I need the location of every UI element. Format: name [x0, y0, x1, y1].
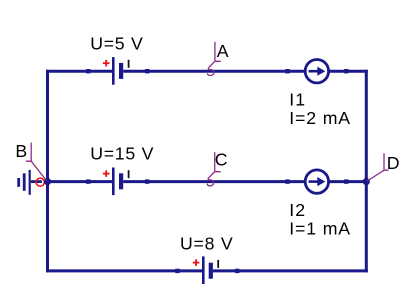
- wire: middle, right segment: [329, 180, 368, 183]
- junction node B dot: [44, 178, 51, 185]
- ground symbol: [17, 170, 31, 195]
- ground lead wire: [31, 180, 42, 183]
- current source I2 pin left: [285, 179, 289, 183]
- wire: middle, left segment: [46, 180, 112, 183]
- wire: middle, center segment: [123, 180, 305, 183]
- current source I2: [305, 170, 328, 193]
- battery V3 pin left: [175, 269, 179, 273]
- svg-text:I=2 mA: I=2 mA: [289, 108, 351, 128]
- current source I1 pin left: [285, 69, 289, 73]
- battery V2 plates (U=15 V): [112, 168, 123, 196]
- current source I2 pin right: [344, 179, 348, 183]
- battery V2 pin right: [145, 179, 149, 183]
- wire: top, middle segment: [123, 70, 305, 73]
- svg-text:D: D: [387, 153, 400, 173]
- battery V3 tick: [217, 260, 219, 268]
- battery V3 plus sign: [193, 259, 200, 266]
- svg-text:U=5 V: U=5 V: [90, 33, 143, 53]
- junction node D dot: [363, 178, 370, 185]
- wire: bottom, right segment: [213, 269, 368, 272]
- battery V2 tick: [128, 170, 130, 178]
- current source I1 pin right: [344, 69, 348, 73]
- wire: bottom, left segment: [46, 269, 202, 272]
- battery V1 pin right: [145, 69, 149, 73]
- battery V2 pin left: [86, 179, 90, 183]
- node D flag: [367, 153, 388, 181]
- wire: left vertical: [46, 70, 49, 273]
- svg-text:I=1 mA: I=1 mA: [289, 219, 351, 239]
- svg-text:I1: I1: [289, 90, 306, 110]
- node C flag: [207, 152, 220, 186]
- battery V3 plates (U=8 V): [202, 256, 213, 284]
- node B flag: [26, 143, 47, 181]
- battery V1 pin left: [86, 69, 90, 73]
- battery V1 plus sign: [103, 60, 110, 67]
- battery V2 plus sign: [103, 170, 110, 177]
- wire: top, right segment: [329, 70, 368, 73]
- svg-text:U=8 V: U=8 V: [180, 234, 233, 254]
- wire: top, left segment: [46, 70, 112, 73]
- wire: right vertical: [365, 70, 368, 273]
- svg-text:A: A: [217, 41, 229, 61]
- svg-text:B: B: [15, 141, 27, 161]
- battery V1 plates (U=5 V): [112, 57, 123, 85]
- ground reference red circle: [36, 178, 44, 186]
- svg-text:I2: I2: [289, 200, 306, 220]
- battery V3 pin right: [235, 269, 239, 273]
- node A flag: [208, 42, 221, 76]
- current source I1: [305, 59, 328, 82]
- svg-text:U=15 V: U=15 V: [90, 143, 154, 163]
- svg-text:C: C: [215, 149, 228, 169]
- battery V1 tick: [128, 60, 130, 68]
